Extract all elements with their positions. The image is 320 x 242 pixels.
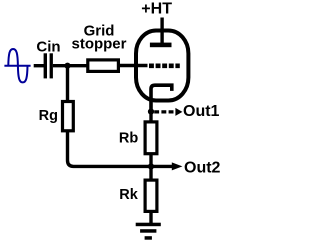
triode envelope U1 xyxy=(136,31,188,101)
svg-text:Rg: Rg xyxy=(39,108,58,124)
wire Out2 node to arrow xyxy=(151,165,172,168)
cathode of U1 xyxy=(151,85,172,111)
svg-text:+HT: +HT xyxy=(141,1,172,18)
wire Cin to grid stopper xyxy=(53,64,87,67)
resistor Rk xyxy=(145,180,157,211)
grid electrode of U1 (dashed) xyxy=(149,64,180,69)
node grid junction xyxy=(64,63,70,69)
resistor grid stopper xyxy=(88,60,119,72)
svg-text:stopper: stopper xyxy=(71,35,126,52)
wire Rb bottom through Out2 node to Rk xyxy=(149,154,152,180)
svg-text:Out2: Out2 xyxy=(184,160,221,177)
+HT supply lead xyxy=(160,18,163,44)
wire Out1 node down to Rb xyxy=(149,112,152,122)
AC input source V1 (sine symbol) xyxy=(4,49,30,82)
wire grid stopper to tube grid xyxy=(120,64,148,67)
resistor Rb xyxy=(145,122,157,154)
arrowhead Out2 xyxy=(172,162,183,170)
node Out1 junction xyxy=(148,109,154,115)
wire Rk bottom to ground xyxy=(149,211,152,223)
wire input to Cin xyxy=(34,64,44,67)
anode plate of U1 xyxy=(150,43,172,48)
resistor Rg xyxy=(63,102,74,131)
wire junction down to Rg xyxy=(66,66,69,101)
node Out2 junction xyxy=(148,163,154,169)
arrowhead Out1 xyxy=(175,108,182,116)
svg-text:Rb: Rb xyxy=(119,130,138,146)
capacitor Cin xyxy=(44,53,53,78)
ground xyxy=(136,223,161,240)
svg-text:Rk: Rk xyxy=(119,187,138,203)
dashed wire to Out1 arrow xyxy=(154,110,175,113)
svg-text:Cin: Cin xyxy=(36,39,60,56)
wire Rg bottom to Out2 node xyxy=(68,131,152,167)
svg-text:Out1: Out1 xyxy=(183,103,220,120)
